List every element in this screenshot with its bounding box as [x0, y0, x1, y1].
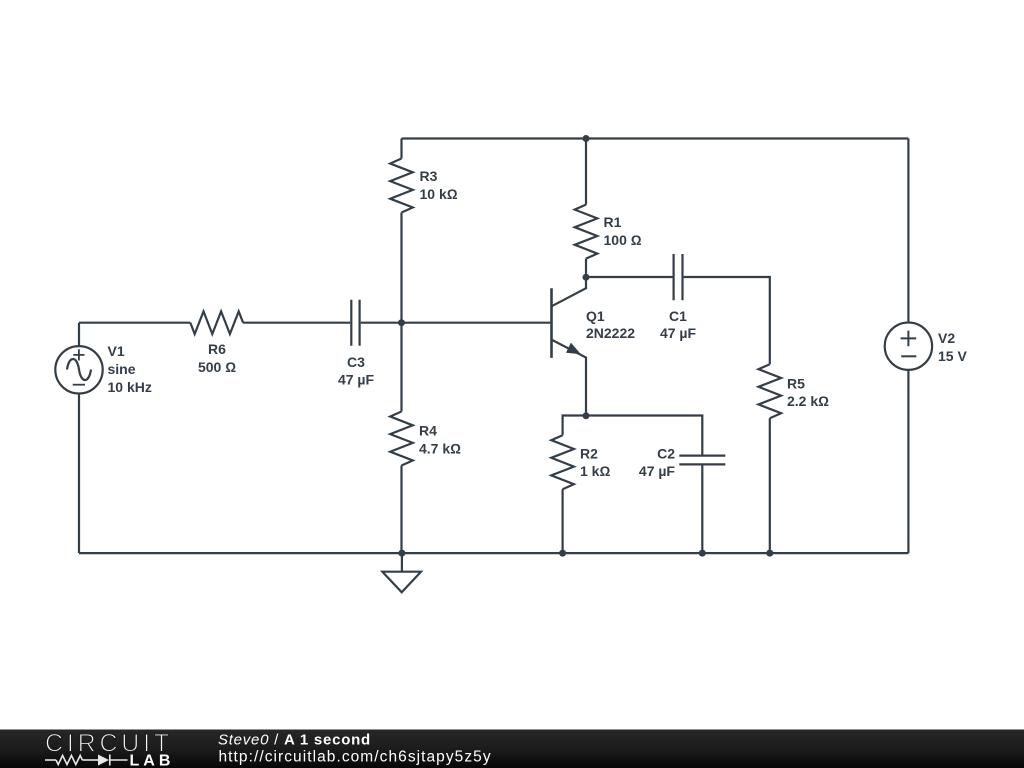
svg-text:V1sine10 kHz: V1sine10 kHz	[108, 343, 152, 395]
svg-text:http://circuitlab.com/ch6sjtap: http://circuitlab.com/ch6sjtapy5z5y	[219, 749, 492, 766]
ground	[382, 553, 421, 592]
node: bias junction	[398, 319, 405, 326]
wire: C1 to R5	[684, 277, 770, 364]
wire: C3 to Q1 base	[361, 322, 551, 324]
svg-text:R21 kΩ: R21 kΩ	[580, 445, 610, 479]
wire: collector to C1	[586, 276, 673, 278]
wire: emitter row	[563, 416, 703, 456]
svg-text:Steve0 / A 1 second: Steve0 / A 1 second	[218, 732, 371, 749]
wire: top rail	[402, 137, 909, 139]
footer bar	[0, 730, 1024, 768]
svg-text:R52.2 kΩ: R52.2 kΩ	[787, 376, 829, 410]
capacitor C2	[679, 456, 725, 553]
resistor R6	[190, 311, 243, 334]
svg-text:R310 kΩ: R310 kΩ	[420, 168, 458, 202]
voltage source V2	[885, 139, 932, 554]
node: ground junction	[398, 550, 405, 557]
capacitor C3	[351, 300, 359, 346]
wire: R6 to C3	[243, 322, 350, 324]
svg-text:C247 µF: C247 µF	[639, 445, 676, 479]
resistor R3	[390, 139, 413, 323]
node: collector junction	[583, 274, 590, 281]
voltage source V1	[55, 323, 102, 553]
capacitor C1	[674, 254, 683, 300]
svg-text:Q12N2222: Q12N2222	[586, 308, 635, 341]
resistor R5	[759, 364, 782, 553]
svg-text:LAB: LAB	[130, 753, 175, 768]
svg-text:R6500 Ω: R6500 Ω	[198, 341, 236, 375]
node: R2 bottom junction	[559, 550, 566, 557]
wire: V1 to R6	[79, 322, 190, 324]
logo resistor-diode icon	[45, 755, 128, 766]
svg-text:R1100 Ω: R1100 Ω	[604, 214, 642, 248]
svg-text:C147 µF: C147 µF	[660, 308, 697, 341]
resistor R1	[575, 139, 598, 278]
wire: bottom rail ground net	[79, 552, 908, 554]
svg-text:R44.7 kΩ: R44.7 kΩ	[419, 423, 461, 457]
node: emitter junction	[583, 412, 590, 419]
node: top rail junction	[583, 135, 590, 142]
transistor Q1	[552, 277, 587, 416]
resistor R4	[390, 323, 413, 553]
node: C2 bottom junction	[699, 550, 706, 557]
node: R5 bottom junction	[766, 550, 773, 557]
svg-text:V215 V: V215 V	[938, 330, 967, 364]
resistor R2	[551, 435, 574, 553]
svg-text:C347 µF: C347 µF	[338, 354, 375, 388]
